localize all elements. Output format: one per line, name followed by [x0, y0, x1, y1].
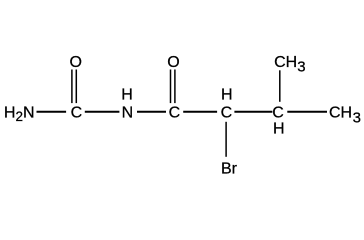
svg-text:O: O — [167, 54, 179, 71]
svg-text:C: C — [169, 104, 181, 121]
wire double bond C1=O1 line b — [75, 70, 77, 104]
wire double bond C2=O2 line b — [174, 70, 176, 104]
wire bond N1-C1 — [37, 111, 67, 113]
svg-text:C: C — [71, 104, 83, 121]
wire bond N2-C2 — [137, 111, 166, 113]
wire double bond C2=O2 line a — [170, 70, 172, 104]
svg-text:H: H — [273, 120, 285, 137]
wire bond C3-C4 — [234, 111, 272, 113]
svg-text:Br: Br — [221, 160, 238, 177]
svg-text:C: C — [272, 104, 284, 121]
svg-text:O: O — [69, 54, 81, 71]
wire bond C3-Br — [225, 122, 227, 157]
wire bond C4-CH3 top — [279, 70, 281, 102]
svg-text:H: H — [221, 86, 233, 103]
svg-text:H: H — [121, 86, 133, 103]
svg-text:N: N — [122, 104, 134, 121]
wire bond C2-C3 — [183, 111, 217, 113]
wire bond C4-CH3 right — [287, 111, 327, 113]
wire bond C1-N2 — [85, 111, 120, 113]
wire double bond C1=O1 line a — [71, 70, 73, 104]
svg-text:C: C — [221, 104, 233, 121]
